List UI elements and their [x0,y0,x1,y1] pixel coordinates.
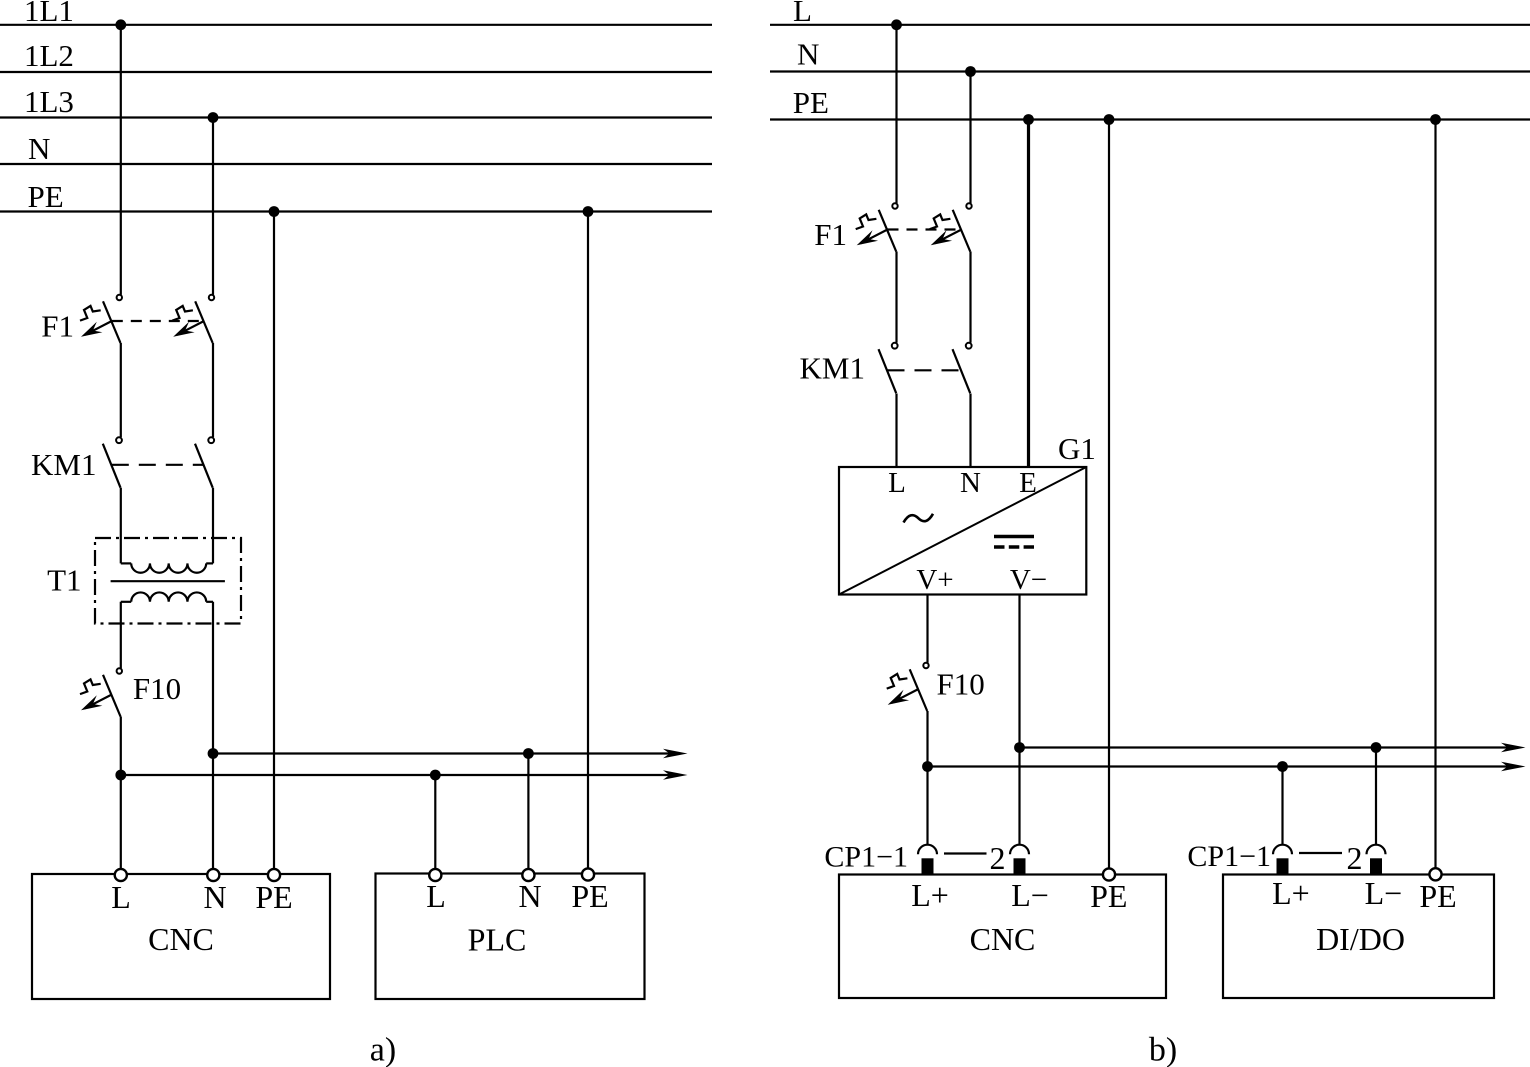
circuit breaker F1b pole 1 [892,203,897,208]
connector CP1-2 CNC [1010,845,1029,854]
DIDO terminal PE [1429,868,1441,880]
junction 1L3 tap [208,112,219,123]
wire KM1b to G1 left [895,394,897,468]
wire bus to PLC L [434,775,436,868]
svg-text:V+: V+ [916,564,953,596]
wire V+ to F10b [926,595,928,663]
power supply G1 box [839,467,1086,595]
box DIDO [1223,875,1494,999]
svg-text:PE: PE [571,878,608,914]
CNC terminal PE [268,869,280,881]
svg-text:N: N [797,37,819,72]
contactor KM1b pole 1 [892,343,898,349]
svg-text:G1: G1 [1058,431,1096,466]
svg-text:L+: L+ [1272,875,1310,911]
junction DIDO L+ [1277,761,1288,772]
wire PE to PLC [587,212,589,869]
junction PLC N [523,748,534,759]
G1 diagonal [839,467,1086,595]
transformer T1 boundary [95,538,241,624]
bus line PE right [770,118,1530,120]
junction PE tap CNC [1104,114,1115,125]
svg-text:1L1: 1L1 [24,0,74,28]
junction V+ bus [922,761,933,772]
junction V- bus [1014,742,1025,753]
feed bus upper arrow [663,749,688,759]
svg-text:N: N [518,878,541,914]
feed bus upper [213,752,678,754]
feed bus lower right arrow [1501,762,1526,772]
junction PE tap 2 [583,206,594,217]
connector CP1-1 CNC [918,845,937,854]
svg-text:L−: L− [1365,875,1403,911]
wire PE to CNCb [1108,120,1110,869]
svg-text:PE: PE [793,85,829,120]
wire F10b to CP1 [926,711,928,844]
junction L tap [891,19,902,30]
svg-text:L: L [111,879,131,915]
svg-text:N: N [203,879,226,915]
svg-text:L: L [793,0,812,28]
contactor KM1 pole 1 [116,437,122,443]
box CNC [32,874,330,999]
wire KM1 to T1 left [120,488,122,564]
wire bus to PLC N [527,754,529,869]
KM1 pole link [112,464,204,466]
svg-text:DI/DO: DI/DO [1316,921,1405,957]
circuit breaker F1 pole 1 [117,295,122,300]
junction PLC L [430,770,441,781]
svg-text:1L3: 1L3 [24,84,74,119]
CNC terminal N [207,869,219,881]
junction upper bus left [208,748,219,759]
T1 secondary winding [121,601,131,603]
wire T1 to CNC N [212,602,214,869]
svg-text:E: E [1019,467,1037,499]
svg-text:T1: T1 [47,563,81,598]
svg-text:KM1: KM1 [800,350,865,385]
PLC terminal L [429,869,441,881]
bus line N [0,163,712,165]
svg-text:2: 2 [990,840,1006,876]
bus line N right [770,70,1530,72]
wire L to F1 [895,25,897,204]
wire F1 to KM1 right [212,343,214,437]
wire F1b to KM1b left [895,252,897,343]
CNC terminal L [115,869,127,881]
wire F1b to KM1b right [969,252,971,343]
junction 1L1 tap [115,19,126,30]
contactor KM1 pole 2 [208,437,214,443]
KM1b pole link [888,369,962,371]
wire PE to DIDO [1434,120,1436,869]
svg-text:F1: F1 [814,217,847,252]
wire KM1b to G1 right [969,394,971,468]
box CNC right [839,875,1166,999]
bus line PE [0,210,712,212]
CNCb terminal PE [1103,868,1115,880]
svg-text:1L2: 1L2 [24,38,74,73]
svg-text:L: L [426,878,446,914]
wire PE to CNC [273,212,275,869]
bus line 1L2 [0,71,712,73]
CP1 link DIDO [1299,852,1342,854]
svg-text:CNC: CNC [148,921,214,957]
wire T1 to F10 [120,602,122,669]
wire N to F1 [969,72,971,204]
svg-text:PE: PE [1090,878,1127,914]
junction lower bus left [115,770,126,781]
feed bus lower [121,774,678,776]
wire PE to G1 E [1027,120,1030,468]
junction DIDO L- [1371,742,1382,753]
svg-text:a): a) [370,1032,396,1067]
junction N tap [965,66,976,77]
bus line 1L3 [0,116,712,118]
wire 1L3 to F1 [212,118,214,295]
wire F1 to KM1 left [120,343,122,437]
wire V- to CP1 [1018,595,1020,845]
svg-text:L+: L+ [911,877,949,913]
circuit breaker F10b [923,663,928,668]
svg-text:F10: F10 [937,667,985,702]
svg-text:N: N [960,467,981,499]
svg-text:PE: PE [28,179,64,214]
feed bus upper right [1020,746,1517,748]
wire KM1 to T1 right [212,488,214,564]
svg-text:KM1: KM1 [31,447,96,482]
box PLC [376,874,645,1000]
svg-text:b): b) [1149,1032,1177,1067]
svg-text:PE: PE [1419,878,1456,914]
G1 DC symbol [994,535,1034,539]
svg-text:2: 2 [1347,840,1363,876]
svg-text:PLC: PLC [468,922,527,958]
circuit breaker F1 pole 2 [209,295,214,300]
PLC terminal PE [582,868,594,880]
svg-text:L: L [888,467,906,499]
svg-text:F1: F1 [41,309,74,344]
F1 pole link [112,320,204,322]
bus line L [770,24,1530,26]
svg-text:V−: V− [1010,564,1047,596]
wire bus to DIDO L+ [1281,767,1283,845]
T1 core separator [111,580,225,582]
svg-text:L−: L− [1011,877,1049,913]
wire F10 to bus [120,717,122,869]
feed bus lower right [928,765,1517,767]
junction PE tap E [1023,114,1034,125]
wire bus to DIDO L- [1375,748,1377,845]
bus line 1L1 [0,24,712,26]
junction PE tap DIDO [1430,114,1441,125]
connector CP1-1 DIDO [1273,845,1292,854]
F1b pole link [888,228,962,230]
feed bus lower arrow [663,770,688,780]
svg-text:PE: PE [255,879,292,915]
svg-text:CNC: CNC [970,921,1036,957]
connector CP1-2 DIDO [1367,845,1386,854]
svg-text:CP1−1: CP1−1 [1187,840,1271,873]
G1 AC symbol [904,514,934,523]
svg-text:F10: F10 [133,671,181,706]
circuit breaker F1b pole 2 [966,203,971,208]
contactor KM1b pole 2 [966,343,972,349]
wire 1L1 to F1 [120,25,122,295]
svg-text:N: N [28,131,50,166]
circuit breaker F10 [117,668,122,673]
PLC terminal N [522,869,534,881]
junction PE tap 1 [269,206,280,217]
T1 primary winding [121,562,131,564]
feed bus upper right arrow [1501,743,1526,753]
svg-text:CP1−1: CP1−1 [824,841,908,874]
CP1 link CNC [944,852,987,854]
